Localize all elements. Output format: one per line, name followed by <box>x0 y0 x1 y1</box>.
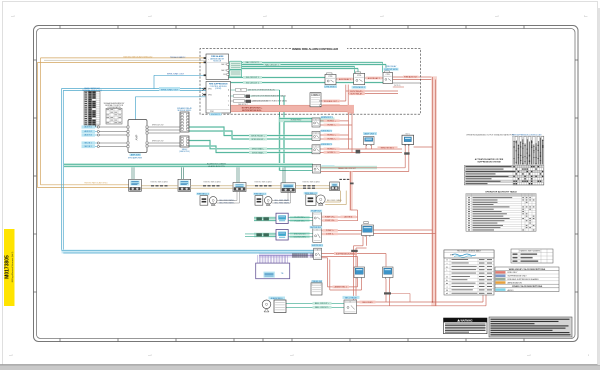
svg-text:(SEE NOTE 6): (SEE NOTE 6) <box>179 151 190 153</box>
wire green long run lower <box>230 82 383 84</box>
relay RB1 <box>312 118 320 127</box>
block SB2 end of line <box>478 258 490 267</box>
svg-text:BELL CIRCUIT +: BELL CIRCUIT + <box>315 303 330 305</box>
svg-text:HORN 2 +: HORN 2 + <box>327 135 337 137</box>
thick salmon band turn down <box>348 105 355 114</box>
svg-text:AMP 40W: AMP 40W <box>131 154 140 157</box>
R2 labels after device <box>290 232 310 235</box>
wire U2 output 4 <box>231 105 267 107</box>
svg-text:TWISTED PAIR 18 AWG SHLD: TWISTED PAIR 18 AWG SHLD <box>84 182 108 185</box>
svg-text:ALARM BUS RTN: ALARM BUS RTN <box>208 165 225 168</box>
lavender terminal band <box>259 254 314 258</box>
device D5 speaker <box>330 182 340 191</box>
page bottom edge shadow <box>0 365 600 370</box>
block S1 pressure switch <box>311 283 322 295</box>
wire cyan speaker zone 1 <box>154 74 206 76</box>
svg-text:AUX IN 1: AUX IN 1 <box>84 126 92 129</box>
label B3 above <box>269 297 286 300</box>
tab on M2 top <box>364 222 368 224</box>
wire group color descriptions table <box>495 267 559 292</box>
wire dark module C aux <box>393 82 421 84</box>
svg-text:HORN 1 +: HORN 1 + <box>327 121 337 123</box>
wire salmon RB2 outputs <box>320 134 349 136</box>
svg-text:CTRL MOD 1: CTRL MOD 1 <box>324 86 337 88</box>
wires FE1 feed from D3 <box>217 200 237 202</box>
bell unit FE1 <box>200 196 217 206</box>
label AMP below <box>130 153 142 156</box>
relay RB4 <box>312 165 320 174</box>
svg-text:ALARM BELL: ALARM BELL <box>271 297 284 300</box>
warning box <box>444 318 488 334</box>
wire green trunk to RB1 <box>280 117 335 122</box>
svg-text:K: K <box>315 146 316 148</box>
relay K3 <box>344 300 357 314</box>
wire salmon B bottom verticals <box>345 85 347 101</box>
svg-text:HORN FEED: HORN FEED <box>291 119 302 121</box>
svg-text:K: K <box>316 166 317 168</box>
label S1 above <box>312 280 323 283</box>
svg-text:OPERATOR ADVISORY TABLE: OPERATOR ADVISORY TABLE <box>485 191 517 194</box>
svg-text:S1: S1 <box>240 90 242 92</box>
device R1 monitor <box>276 213 288 223</box>
wires FE2 feed from D4 <box>272 200 288 202</box>
monitor M3 <box>354 267 365 279</box>
svg-text:SUPPRESSION ONLY: SUPPRESSION ONLY <box>508 276 528 278</box>
svg-text:FIRE BELL 2: FIRE BELL 2 <box>254 194 266 196</box>
tan wire D1-D2 <box>141 185 178 187</box>
svg-text:¹: ¹ <box>588 354 589 357</box>
relay K1a <box>313 212 322 226</box>
wires AMP to terminal blocks B1 B2 <box>148 127 180 146</box>
label box U2 output 1 <box>236 88 247 91</box>
wire salmon M4 stub right <box>390 293 411 295</box>
svg-text:TROUBLE OUT +: TROUBLE OUT + <box>324 101 340 103</box>
svg-text:PUMP RLY: PUMP RLY <box>311 211 322 213</box>
wire green B1 to RB2 run B <box>189 130 232 132</box>
svg-text:NAC CIRCUIT 1: NAC CIRCUIT 1 <box>246 61 260 64</box>
table T2 alarm memory settings <box>104 102 126 124</box>
revision mini table <box>511 249 553 263</box>
wires FE3 feed from D5 tan loop <box>325 201 340 203</box>
operator advisory table <box>466 191 536 232</box>
svg-text:NOTIFICATION BUS +: NOTIFICATION BUS + <box>242 106 263 109</box>
wire green run 2 to module B <box>242 68 359 70</box>
wire cyan left vertical pair <box>61 89 63 251</box>
svg-text:FIRE RELAY: FIRE RELAY <box>386 65 398 68</box>
svg-text:CTRL: CTRL <box>357 75 361 77</box>
svg-text:SIG CIRCUIT 1: SIG CIRCUIT 1 <box>246 77 259 79</box>
wire salmon K3 output <box>357 301 377 303</box>
svg-text:HORN 2 -: HORN 2 - <box>327 139 336 141</box>
wire salmon K1 to M2 <box>322 230 362 232</box>
tan wire D2-D3 <box>191 185 233 187</box>
svg-text:SPKR FRONT -: SPKR FRONT - <box>251 139 265 141</box>
svg-text:MODULE: MODULE <box>213 61 221 63</box>
svg-text:K: K <box>317 229 318 231</box>
wire salmon RB3 outputs <box>320 148 349 150</box>
svg-text:—¹: —¹ <box>11 15 15 18</box>
wire U2 output 3 <box>231 100 269 102</box>
wire salmon to module C lower <box>346 90 398 92</box>
svg-text:FSCM P2: FSCM P2 <box>211 114 221 116</box>
svg-text:HORN RLY 1: HORN RLY 1 <box>321 117 334 119</box>
wire salmon K2 outputs <box>322 253 387 255</box>
label module A <box>324 85 337 88</box>
device D2 cabin speaker unit <box>178 179 191 191</box>
svg-text:⊥: ⊥ <box>446 269 448 272</box>
svg-text:—¹: —¹ <box>263 15 267 18</box>
svg-text:SPKR ZONE 1 OUT: SPKR ZONE 1 OUT <box>167 73 185 75</box>
wire salmon module C lower stub <box>393 86 404 88</box>
svg-text:AGENT REL 1: AGENT REL 1 <box>335 286 347 289</box>
svg-text:ZONE 5 -: ZONE 5 - <box>326 234 334 236</box>
wire salmon M4 legs <box>385 279 387 302</box>
label cyan RB4 output <box>322 165 335 168</box>
green bus drops to devices <box>131 167 133 179</box>
svg-text:BELL FEED: BELL FEED <box>362 302 373 304</box>
svg-text:AUX IN 3: AUX IN 3 <box>84 134 92 137</box>
svg-text:SUPPRESSION SYSTEM: SUPPRESSION SYSTEM <box>477 162 501 164</box>
wire cyan speaker pair horizontal <box>62 88 207 90</box>
svg-text:WARNING: WARNING <box>460 320 472 323</box>
svg-text:OUTPUT MOD: OUTPUT MOD <box>384 69 398 71</box>
bell unit FE2 <box>255 196 272 206</box>
svg-text:SUPPR RLY: SUPPR RLY <box>312 245 324 247</box>
svg-text:SPK1: SPK1 <box>208 88 212 90</box>
svg-text:B: B <box>228 96 229 98</box>
relay RB3 <box>312 145 320 154</box>
svg-text:—¹: —¹ <box>148 354 152 357</box>
svg-text:HORN 1 -: HORN 1 - <box>327 125 336 127</box>
label K1a above <box>310 210 322 213</box>
junction dot bottom run <box>432 301 433 302</box>
wire green run to module B <box>242 66 355 68</box>
svg-text:BELL CIRCUIT -: BELL CIRCUIT - <box>315 307 329 309</box>
svg-text:SPKR FRONT +: SPKR FRONT + <box>251 135 266 137</box>
svg-text:SPK2: SPK2 <box>208 94 212 96</box>
label U2 below <box>210 113 222 116</box>
svg-text:PRESS SW: PRESS SW <box>312 281 323 283</box>
drawing border outer <box>34 26 579 342</box>
wire U2 output 1 <box>231 89 280 91</box>
label K3 above <box>343 296 360 299</box>
svg-text:FIRE AND SUPPRESSION SHARED: FIRE AND SUPPRESSION SHARED <box>508 278 540 281</box>
svg-text:(NOTE 3): (NOTE 3) <box>394 85 401 87</box>
svg-text:NAC CIRCUIT 2: NAC CIRCUIT 2 <box>265 63 279 66</box>
label K2 above <box>311 244 323 247</box>
svg-text:FIRE ALM OUT: FIRE ALM OUT <box>404 76 418 79</box>
wire salmon bottom run <box>376 301 483 303</box>
notes box <box>489 317 572 337</box>
wire salmon M2 to right verticals <box>374 229 433 231</box>
svg-text:TW SHLD PAIR 2C: TW SHLD PAIR 2C <box>170 56 186 59</box>
component inline resistor below run <box>356 150 361 154</box>
wire salmon to M3 legs <box>328 286 358 288</box>
svg-text:BELL RELAY: BELL RELAY <box>345 296 357 299</box>
svg-text:+: + <box>208 59 209 61</box>
wire green run to module A <box>229 77 328 79</box>
svg-text:HORN 3 +: HORN 3 + <box>327 149 337 151</box>
wire cyan bottom band pair <box>62 250 314 254</box>
terminal block B1 <box>180 112 189 132</box>
device D3 speaker <box>233 183 246 192</box>
input jacks and labels left of AMP <box>82 125 127 148</box>
wire orange pair left vertical <box>40 58 42 185</box>
K1a salmon outputs <box>322 216 358 218</box>
svg-text:K: K <box>317 250 318 252</box>
svg-text:SUPV RELAY -: SUPV RELAY - <box>350 93 363 96</box>
white mini label on band <box>312 103 318 105</box>
svg-text:SPKR REAR -: SPKR REAR - <box>252 151 264 154</box>
svg-text:FIRE BELL 1: FIRE BELL 1 <box>197 194 209 196</box>
svg-text:K: K <box>315 119 316 121</box>
svg-text:(FSCM): (FSCM) <box>215 88 221 90</box>
terminal strip table T1 <box>82 87 102 127</box>
svg-text:TWISTED PAIR 18 AWG SHIELDED: TWISTED PAIR 18 AWG SHIELDED <box>123 56 153 59</box>
device D4 speaker <box>281 183 296 193</box>
svg-text:LAMP UNIT 1: LAMP UNIT 1 <box>364 132 377 135</box>
terminal block B2 <box>180 136 189 147</box>
wire green bottom bell cluster to K3 <box>286 302 344 304</box>
relay K2 <box>314 248 322 259</box>
svg-text:ALM RELAY 2: ALM RELAY 2 <box>368 77 380 80</box>
module G2 supervision <box>230 70 242 77</box>
resistor on MB2 leg <box>404 152 409 154</box>
svg-text:HORN RLY 2: HORN RLY 2 <box>320 130 333 132</box>
bell unit FE3 <box>306 195 325 206</box>
svg-text:ZONE 5 +: ZONE 5 + <box>326 230 335 232</box>
relay K1 <box>313 228 322 242</box>
wire salmon D outputs <box>321 100 346 102</box>
wire orange pair top horizontal <box>41 57 207 59</box>
dark link from D5 top <box>339 178 349 180</box>
svg-text:HORN 3 -: HORN 3 - <box>327 152 336 154</box>
svg-text:ALARM BUS 18AWG: ALARM BUS 18AWG <box>207 163 226 166</box>
svg-text:▲: ▲ <box>446 265 448 268</box>
bell unit B3 with box <box>262 300 286 313</box>
svg-text:AUX IN 2: AUX IN 2 <box>84 130 92 133</box>
wire salmon K2 lower pair down <box>322 257 328 259</box>
wire green B1 to RB2 run A <box>189 126 224 128</box>
svg-text:RMT 2: RMT 2 <box>406 133 411 135</box>
twist marks at U2 left <box>202 89 204 96</box>
relay module C <box>383 71 393 84</box>
wire green run to module C <box>242 62 383 64</box>
terminal block on M4 legs <box>384 292 391 294</box>
wire salmon module B to C <box>365 77 383 79</box>
drawing border inner <box>37 29 576 339</box>
relay module A <box>325 73 336 85</box>
svg-text:—¹: —¹ <box>380 15 384 18</box>
wire salmon M2 legs down to K3 <box>362 236 364 246</box>
svg-text:—¹: —¹ <box>148 15 152 18</box>
svg-text:SPKR OUT 25V: SPKR OUT 25V <box>152 125 164 127</box>
label speaker zone 2 <box>159 87 180 91</box>
relay RB2 <box>312 132 320 141</box>
svg-text:FIRE BELL 3: FIRE BELL 3 <box>305 193 317 195</box>
svg-text:MIC IN 2: MIC IN 2 <box>85 146 92 148</box>
svg-text:SUPPRESSION FEED: SUPPRESSION FEED <box>336 253 356 255</box>
yellow sticky tab M0173805 <box>4 229 15 306</box>
wire green trunk vertical pair <box>279 90 281 171</box>
wire orange shield line <box>44 59 206 61</box>
svg-text:SHTDN RLY: SHTDN RLY <box>310 227 322 229</box>
monitor M2 <box>362 225 374 237</box>
label cyan above MB1 <box>363 132 377 135</box>
wire salmon drop from RB4 run to M2 <box>349 172 352 211</box>
svg-text:PUMP ON +: PUMP ON + <box>325 217 336 219</box>
legend table <box>444 250 494 296</box>
svg-text:ACTIVATION MATRIX OF FIRE: ACTIVATION MATRIX OF FIRE <box>475 158 504 161</box>
svg-text:REMOTE IND 1: REMOTE IND 1 <box>381 147 394 149</box>
wire salmon RB4 output pair to MB2 <box>321 166 377 169</box>
wire salmon long vertical pair right with band <box>431 76 437 306</box>
svg-text:CTRL: CTRL <box>328 76 332 78</box>
svg-text:SPKR REAR +: SPKR REAR + <box>252 148 265 151</box>
wire salmon module A to B <box>336 78 354 80</box>
svg-text:SPKR AMPLIFIER: SPKR AMPLIFIER <box>128 157 143 160</box>
svg-text:ANNUNCIATION: ANNUNCIATION <box>508 281 523 284</box>
module G1 supervision <box>230 61 242 69</box>
monitor M4 <box>383 267 394 279</box>
svg-text:MIC IN 1: MIC IN 1 <box>85 143 92 145</box>
svg-text:ALM RELAY 1: ALM RELAY 1 <box>339 78 351 81</box>
wire U2 output 2 <box>231 95 285 97</box>
svg-text:M: M <box>446 290 448 292</box>
svg-text:CTRL: CTRL <box>386 74 390 76</box>
svg-text:SRM-2: SRM-2 <box>182 149 188 151</box>
thick salmon notification band <box>231 105 355 112</box>
monitor MB2 <box>402 133 414 145</box>
svg-text:PUMP ON -: PUMP ON - <box>325 220 335 222</box>
device D1 cabin speaker unit <box>129 179 142 191</box>
svg-text:K: K <box>350 301 351 303</box>
svg-text:—¹: —¹ <box>495 15 499 18</box>
svg-text:—¹: —¹ <box>9 354 13 357</box>
svg-text:INSIDE FIRE ALARM CONTROLLER: INSIDE FIRE ALARM CONTROLLER <box>292 47 338 51</box>
activation matrix table <box>464 136 544 185</box>
svg-text:—¹: —¹ <box>290 354 294 357</box>
border zone ticks <box>34 26 579 342</box>
wire salmon MB2 legs down <box>404 146 406 168</box>
wire salmon RB1 outputs <box>320 120 349 122</box>
wire teal row R1 band <box>254 217 276 222</box>
wire cyan amp feed <box>134 97 136 120</box>
wire green run 2 to module C <box>242 64 387 66</box>
svg-text:HORN RLY 3: HORN RLY 3 <box>320 144 333 146</box>
label module B <box>352 86 367 89</box>
block AMP amplifier <box>127 120 148 153</box>
wire salmon MB2 to right vertical <box>414 146 433 148</box>
tan wire D3-D4 <box>246 185 281 187</box>
device R2 monitor <box>276 230 288 241</box>
svg-text:AMP: AMP <box>135 134 139 140</box>
svg-text:CABIN CENTER HIC: CABIN CENTER HIC <box>84 87 101 90</box>
svg-text:NOTIFICATION BUS -: NOTIFICATION BUS - <box>242 109 262 112</box>
svg-text:66 Page Electrical Schematic (: 66 Page Electrical Schematic (Vol 2) <box>11 251 14 282</box>
monitor MB1 <box>364 137 375 146</box>
label FE3 above <box>304 192 318 195</box>
relay module B <box>354 72 365 85</box>
tan wire D4-D5 <box>296 185 330 187</box>
svg-text:M0173805: M0173805 <box>5 255 11 279</box>
wire green B2 to RB3 run C <box>189 140 210 142</box>
svg-text:SIG CIRCUIT 2: SIG CIRCUIT 2 <box>246 82 259 84</box>
label K1 above <box>310 226 323 229</box>
wire teal row R2 band <box>254 233 276 238</box>
svg-text:PANEL IND CIRCUIT: PANEL IND CIRCUIT <box>338 167 357 170</box>
svg-text:SPKR ZONE 2 OUT: SPKR ZONE 2 OUT <box>161 89 179 91</box>
dashed box fire alarm controller <box>200 49 421 115</box>
wire salmon risers to SB2 <box>482 266 484 302</box>
svg-text:SPKR OUT 25V: SPKR OUT 25V <box>152 141 164 143</box>
svg-text:—¹: —¹ <box>527 354 531 357</box>
wire salmon pair down from band <box>348 113 350 149</box>
block U1 annunciator module <box>204 54 229 80</box>
block D monitor module <box>310 93 322 107</box>
svg-text:OPERATING ALARM AND OUTPUT SIG: OPERATING ALARM AND OUTPUT SIGNALING MAT… <box>466 133 515 136</box>
svg-text:(NOTE 8): (NOTE 8) <box>344 217 352 219</box>
wire salmon runs to monitors <box>349 148 403 150</box>
svg-text:K: K <box>315 133 316 135</box>
svg-text:MODULE SRM-1: MODULE SRM-1 <box>178 110 192 112</box>
purple terminal device P <box>256 255 290 279</box>
svg-text:CTRL MOD 2: CTRL MOD 2 <box>353 87 366 89</box>
svg-text:❖: ❖ <box>446 279 448 282</box>
wire green B2 to RB3 run D <box>189 145 216 147</box>
green bus horizontal band <box>64 163 313 167</box>
svg-text:FIRE ONLY: FIRE ONLY <box>508 272 519 274</box>
wire green trunk to RB4 <box>280 170 313 172</box>
svg-text:¹—: ¹— <box>584 15 588 18</box>
R1 labels after device <box>290 216 310 219</box>
block U2 controller main board <box>204 82 231 114</box>
wire salmon module C outputs right <box>393 76 433 78</box>
svg-text:AUDIO: AUDIO <box>508 289 515 292</box>
hatch marks on lavender band <box>293 253 313 257</box>
wire orange pair bottom horizontal <box>41 184 129 186</box>
